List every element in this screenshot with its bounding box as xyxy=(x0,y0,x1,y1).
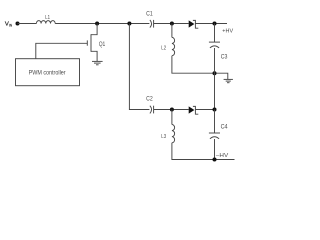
node +HV junction xyxy=(213,22,217,26)
capacitor C1 xyxy=(150,20,154,28)
wire L1 to C1 (top rail) xyxy=(55,23,149,25)
wire C4 bottom lead xyxy=(214,139,216,160)
inductor L1 xyxy=(36,21,55,24)
svg-text:C1: C1 xyxy=(146,11,153,18)
svg-text:L1: L1 xyxy=(45,15,50,21)
inductor L2 xyxy=(172,24,175,56)
diode D2 (schottky) xyxy=(189,106,199,114)
wire Q1 gate to PWM controller xyxy=(36,43,88,58)
svg-text:C3: C3 xyxy=(221,55,228,61)
wire C2 to diode D2 xyxy=(154,109,189,111)
svg-text:C2: C2 xyxy=(146,96,153,103)
wire C1 to diode D1 xyxy=(154,23,189,25)
ground right of C3 xyxy=(224,79,233,82)
wire Vin to L1 xyxy=(18,23,37,25)
svg-text:L3: L3 xyxy=(161,134,166,140)
svg-text:–HV: –HV xyxy=(216,153,229,159)
node D2 output junction xyxy=(213,108,217,112)
wire D2 to C4 column xyxy=(195,109,214,111)
node L3 junction xyxy=(170,108,174,112)
wire middle column (top rail to C2 branch) xyxy=(129,24,149,110)
wire D1 to +HV xyxy=(195,23,227,25)
node -HV junction xyxy=(213,158,217,162)
capacitor C3 xyxy=(209,42,220,48)
node C3 bottom junction xyxy=(213,71,217,75)
svg-text:PWM controller: PWM controller xyxy=(29,70,67,77)
svg-text:Q1: Q1 xyxy=(99,42,106,48)
svg-text:IN: IN xyxy=(9,24,13,28)
node Vin label xyxy=(5,22,13,28)
svg-text:+HV: +HV xyxy=(222,29,233,35)
wire L3 to bottom rail xyxy=(172,143,235,160)
transistor Q1 xyxy=(87,24,97,62)
node Vin junction dot xyxy=(16,22,20,26)
wire C3 to mid rail and down to lower branch xyxy=(214,48,216,110)
inductor L3 xyxy=(172,110,175,143)
capacitor C2 xyxy=(150,106,154,114)
wire +HV down to C3 xyxy=(214,24,216,43)
wire C4 top lead xyxy=(214,110,216,134)
node Q1 drain junction xyxy=(95,22,99,26)
ground below Q1 xyxy=(92,61,103,64)
wire L2 to ground rail xyxy=(172,56,228,79)
node L2 junction xyxy=(170,22,174,26)
diode D1 (schottky) xyxy=(189,20,199,28)
node middle-column junction xyxy=(127,22,131,26)
capacitor C4 xyxy=(209,133,220,139)
svg-text:C4: C4 xyxy=(221,124,229,130)
svg-text:L2: L2 xyxy=(161,46,166,52)
PWM controller box U1 xyxy=(16,59,80,86)
